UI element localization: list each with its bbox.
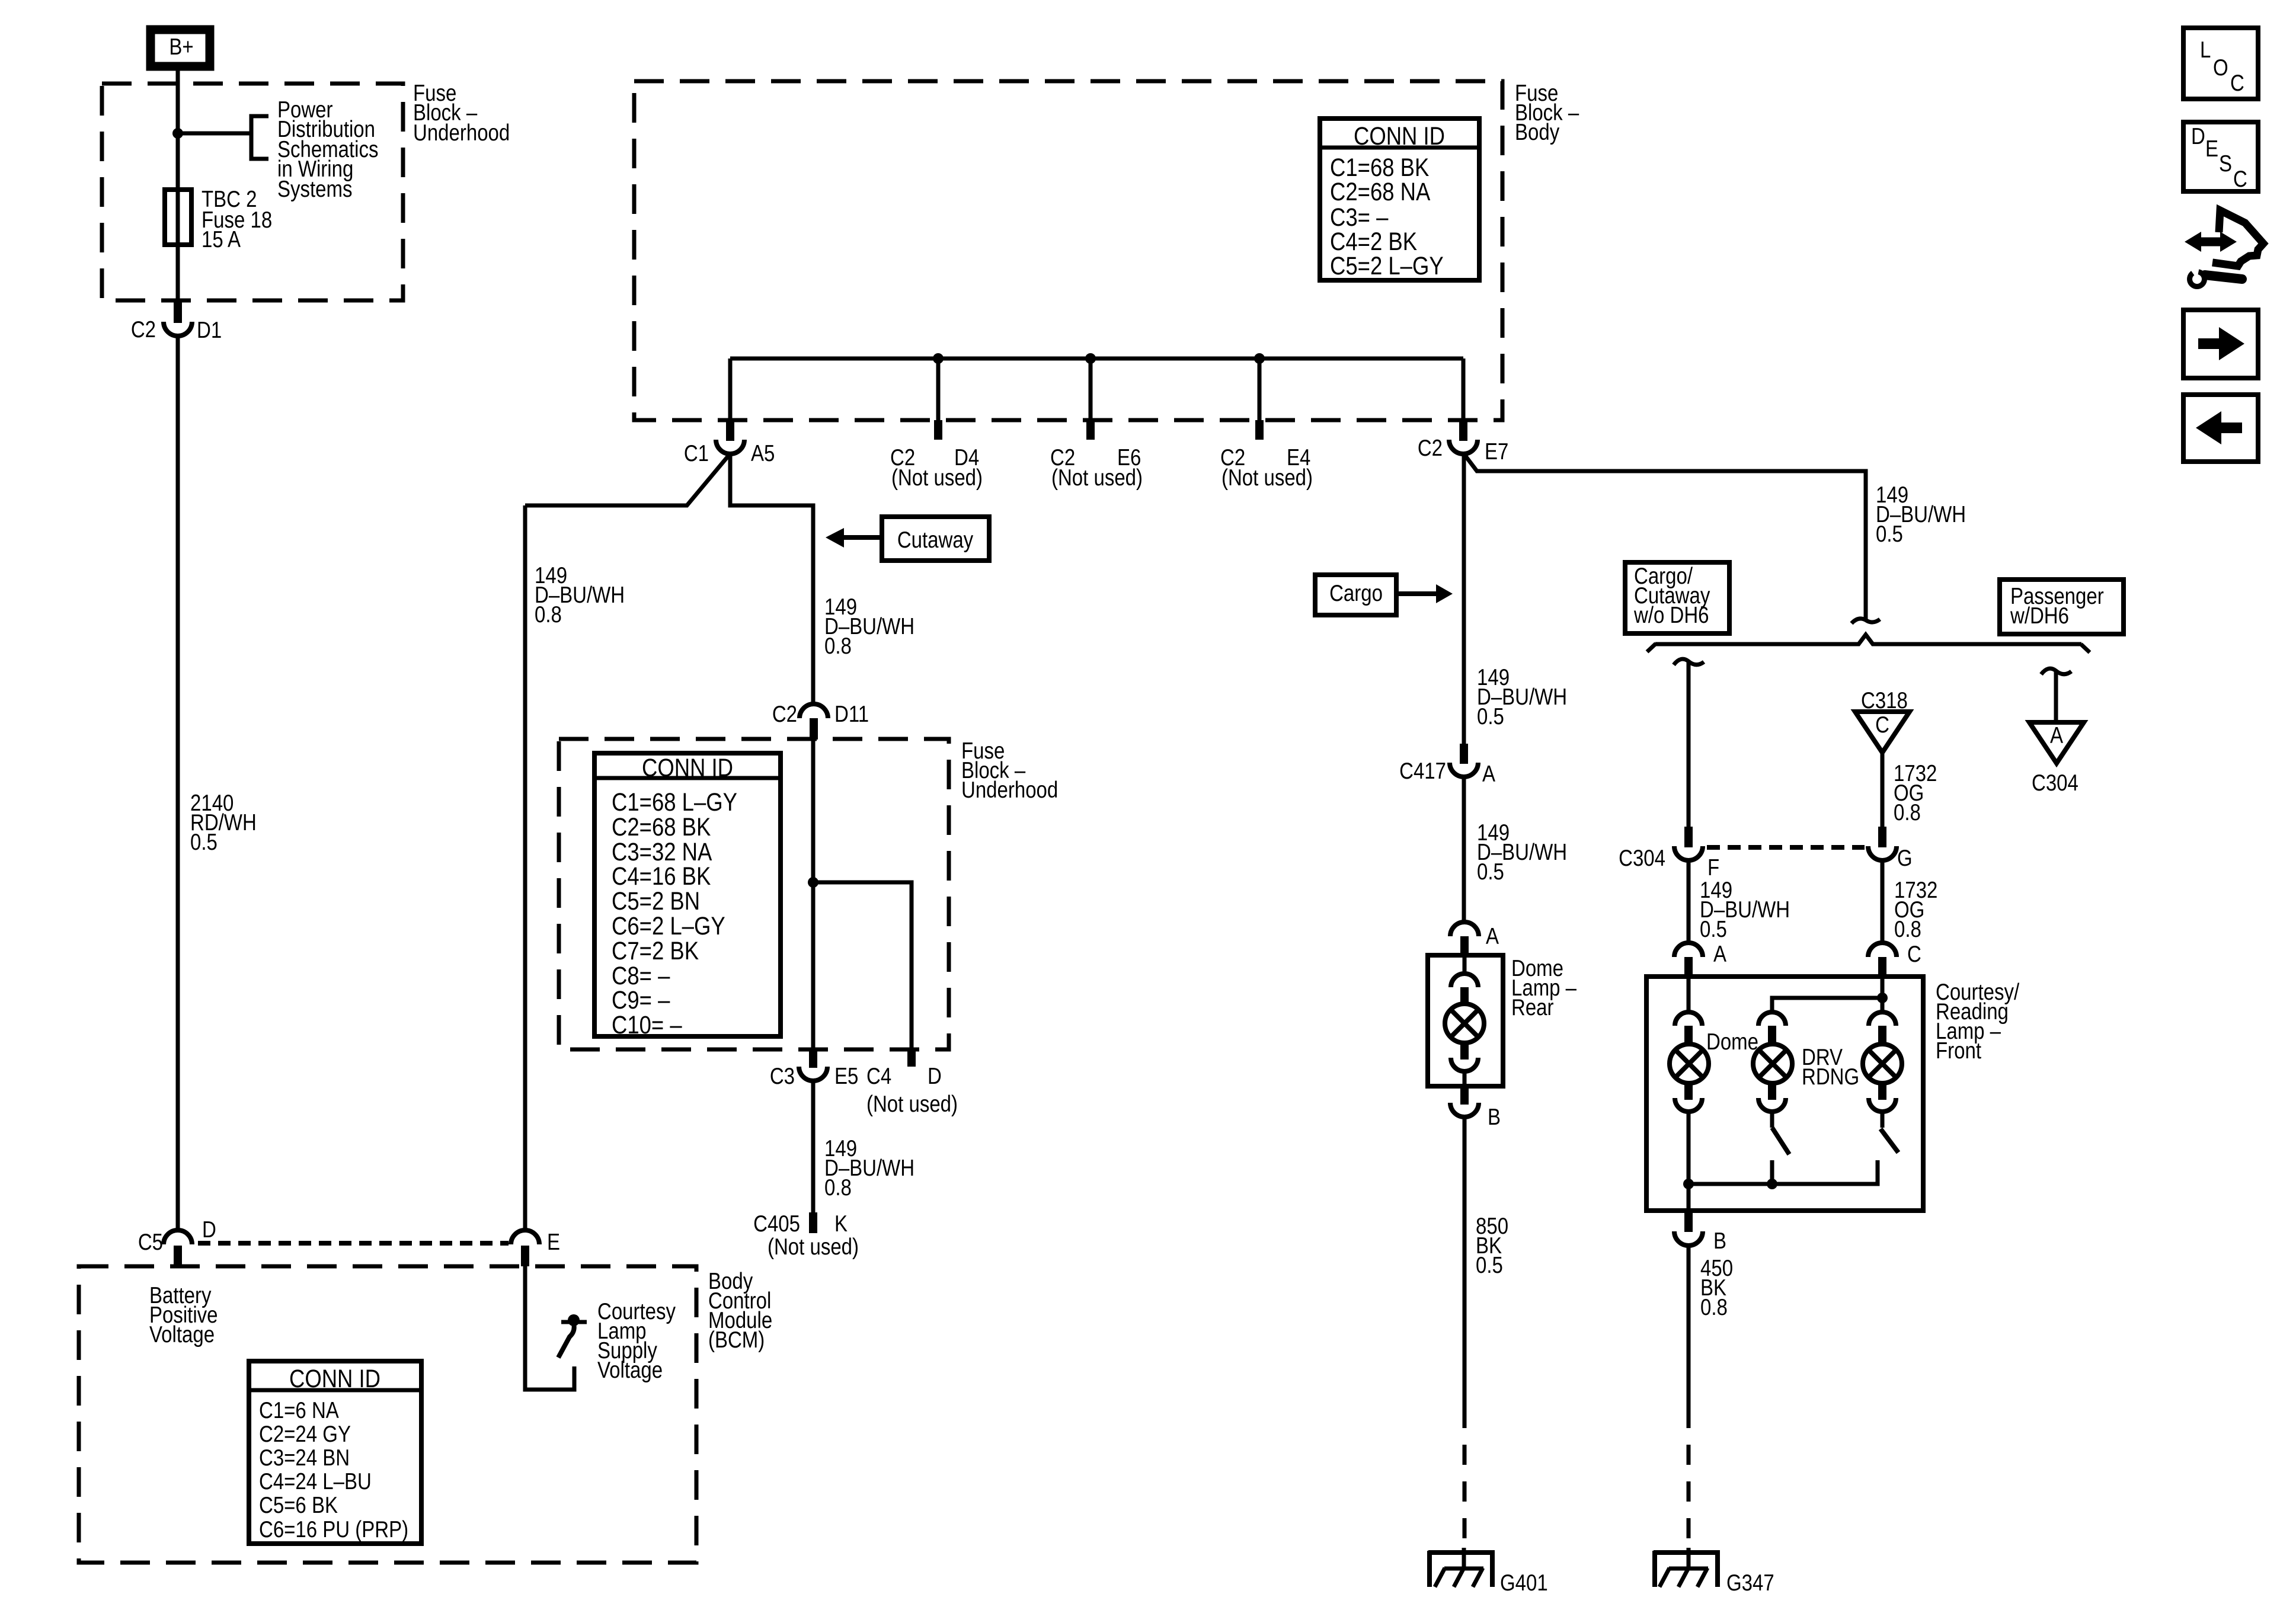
svg-text:D1: D1: [197, 316, 222, 343]
svg-text:0.5: 0.5: [1477, 858, 1504, 884]
svg-text:C1=6 NA: C1=6 NA: [259, 1397, 339, 1423]
svg-text:A: A: [1713, 940, 1726, 966]
svg-text:(Not used): (Not used): [1051, 464, 1143, 490]
svg-text:(Not used): (Not used): [768, 1233, 859, 1259]
svg-text:C2: C2: [131, 316, 156, 342]
svg-text:Voltage: Voltage: [597, 1356, 663, 1382]
svg-text:Underhood: Underhood: [413, 119, 510, 145]
svg-text:0.8: 0.8: [1894, 916, 1921, 942]
svg-text:C3=24 BN: C3=24 BN: [259, 1444, 350, 1470]
svg-text:A: A: [2050, 722, 2063, 748]
svg-text:C2=24 GY: C2=24 GY: [259, 1420, 351, 1446]
svg-text:0.8: 0.8: [1894, 799, 1921, 825]
svg-text:S: S: [2219, 150, 2232, 176]
svg-text:B+: B+: [169, 33, 193, 59]
svg-text:0.5: 0.5: [1477, 703, 1504, 729]
svg-text:Dome: Dome: [1706, 1028, 1758, 1054]
svg-text:C5: C5: [138, 1228, 163, 1254]
svg-text:C2=68 BK: C2=68 BK: [612, 813, 711, 841]
svg-text:B: B: [1713, 1227, 1726, 1253]
svg-text:D11: D11: [834, 700, 869, 726]
svg-text:C4=16 BK: C4=16 BK: [612, 862, 711, 890]
svg-text:C405: C405: [753, 1210, 800, 1236]
svg-text:Underhood: Underhood: [961, 776, 1058, 802]
svg-text:C1=68 L–GY: C1=68 L–GY: [612, 788, 737, 816]
svg-text:0.5: 0.5: [1476, 1251, 1503, 1278]
svg-text:RDNG: RDNG: [1802, 1063, 1859, 1089]
svg-text:C2: C2: [1418, 434, 1443, 460]
svg-text:E7: E7: [1485, 438, 1508, 464]
svg-text:(Not used): (Not used): [866, 1090, 958, 1116]
svg-text:C318: C318: [1861, 687, 1908, 713]
svg-text:C7=2 BK: C7=2 BK: [612, 937, 699, 965]
svg-text:C: C: [2233, 165, 2247, 191]
svg-text:C2=68 NA: C2=68 NA: [1330, 178, 1431, 206]
svg-text:(Not used): (Not used): [891, 464, 983, 490]
svg-text:C5=2 BN: C5=2 BN: [612, 887, 700, 915]
svg-text:0.5: 0.5: [190, 828, 218, 854]
svg-text:C6=16 PU (PRP): C6=16 PU (PRP): [259, 1516, 408, 1542]
svg-text:Cargo: Cargo: [1329, 580, 1383, 606]
svg-text:C417: C417: [1399, 757, 1446, 783]
svg-text:G: G: [1897, 844, 1913, 870]
svg-text:C4: C4: [866, 1062, 891, 1089]
svg-text:C: C: [1875, 711, 1889, 737]
svg-text:A5: A5: [751, 440, 775, 466]
svg-text:Rear: Rear: [1511, 994, 1554, 1020]
svg-text:D: D: [202, 1216, 216, 1242]
svg-text:(Not used): (Not used): [1221, 464, 1313, 490]
svg-text:0.5: 0.5: [1876, 520, 1903, 546]
svg-text:CONN ID: CONN ID: [1354, 122, 1445, 150]
svg-text:G401: G401: [1500, 1569, 1548, 1595]
svg-text:w/DH6: w/DH6: [2010, 602, 2069, 628]
svg-text:C: C: [2230, 69, 2244, 95]
svg-text:0.8: 0.8: [824, 632, 852, 658]
svg-text:w/o DH6: w/o DH6: [1633, 601, 1709, 628]
svg-text:Front: Front: [1936, 1037, 1981, 1063]
svg-text:Cutaway: Cutaway: [897, 526, 973, 552]
svg-text:C5=6 BK: C5=6 BK: [259, 1491, 338, 1518]
svg-text:0.5: 0.5: [1700, 916, 1727, 942]
svg-text:C3: C3: [770, 1062, 795, 1089]
svg-text:CONN ID: CONN ID: [642, 754, 733, 782]
svg-text:C304: C304: [1619, 844, 1665, 870]
svg-text:E: E: [547, 1228, 560, 1254]
svg-text:Voltage: Voltage: [149, 1321, 215, 1347]
svg-text:G347: G347: [1726, 1569, 1774, 1595]
svg-text:C304: C304: [2032, 769, 2078, 795]
svg-text:A: A: [1482, 760, 1495, 786]
svg-text:D: D: [928, 1062, 942, 1089]
svg-text:C4=24 L–BU: C4=24 L–BU: [259, 1468, 372, 1494]
svg-text:A: A: [1486, 923, 1499, 949]
svg-text:CONN ID: CONN ID: [289, 1365, 380, 1393]
svg-text:0.8: 0.8: [535, 601, 562, 627]
svg-text:C5=2 L–GY: C5=2 L–GY: [1330, 252, 1444, 280]
svg-text:Body: Body: [1515, 119, 1559, 145]
svg-text:E: E: [2205, 135, 2218, 161]
svg-text:C6=2 L–GY: C6=2 L–GY: [612, 912, 725, 940]
svg-text:Systems: Systems: [277, 175, 352, 201]
svg-text:D: D: [2191, 123, 2205, 149]
svg-text:C: C: [1907, 940, 1921, 966]
svg-text:(BCM): (BCM): [708, 1326, 765, 1352]
svg-text:C2: C2: [772, 700, 797, 726]
svg-text:C9= –: C9= –: [612, 986, 670, 1014]
svg-text:C1: C1: [684, 440, 709, 466]
svg-text:B: B: [1488, 1103, 1501, 1129]
svg-text:L: L: [2200, 36, 2211, 62]
svg-text:0.8: 0.8: [824, 1174, 852, 1200]
svg-text:O: O: [2213, 54, 2228, 80]
svg-text:0.8: 0.8: [1700, 1294, 1728, 1320]
svg-text:E5: E5: [834, 1062, 858, 1089]
svg-text:K: K: [834, 1210, 848, 1236]
svg-text:C10= –: C10= –: [612, 1011, 682, 1039]
svg-text:15 A: 15 A: [202, 226, 241, 252]
